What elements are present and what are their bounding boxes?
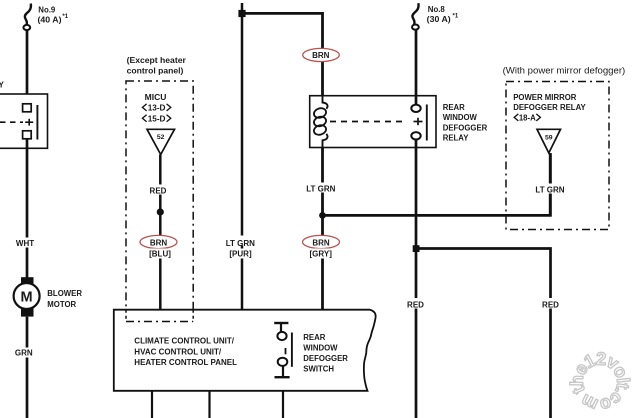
svg-text:DEFOGGER: DEFOGGER: [443, 123, 488, 132]
svg-text:RED: RED: [150, 186, 167, 195]
label WHT: [14, 238, 36, 249]
label RED (micu wire): [147, 185, 170, 196]
svg-text:Y: Y: [0, 80, 5, 89]
label REAR WINDOW DEFOGGER SWITCH: [303, 333, 348, 374]
MICU box bottom (inside climate box): [126, 310, 193, 322]
power mirror defogger relay block (dash-dot box): [506, 82, 609, 230]
terminals: [411, 105, 420, 112]
wire: fuse No.9 to blower motor relay: [26, 30, 29, 104]
svg-text:CLIMATE CONTROL UNIT/: CLIMATE CONTROL UNIT/: [134, 337, 234, 346]
label MICU <13-D> <15-D>: [142, 92, 170, 124]
label LT GRN (power mirror): [533, 184, 567, 195]
dashed actuation line: [330, 121, 406, 123]
blower motor M: [14, 277, 40, 316]
coil: [323, 96, 328, 109]
label RED (right): [539, 298, 562, 310]
wire: RED branch right and down: [416, 249, 551, 418]
wire: top branch over to relay coil: [242, 13, 323, 96]
node: top junction: [238, 10, 245, 17]
svg-text:15-D: 15-D: [148, 114, 166, 123]
svg-text:No.9: No.9: [38, 4, 55, 14]
rear window defogger relay: [310, 96, 436, 148]
label (Except heater control panel): [127, 55, 187, 76]
label BLOWER MOTOR: [47, 289, 82, 309]
label POWER MIRROR DEFOGGER RELAY <18-A>: [513, 93, 586, 123]
label BRN (circled, top): [303, 48, 340, 61]
svg-text:LT GRN: LT GRN: [535, 185, 564, 194]
svg-text:BRN: BRN: [312, 51, 330, 60]
contact bar: [426, 105, 428, 141]
svg-text:(With power mirror defogger): (With power mirror defogger): [503, 65, 626, 76]
svg-text:[GRY]: [GRY]: [310, 249, 333, 258]
svg-text:M: M: [21, 289, 33, 305]
svg-text:No.8: No.8: [428, 4, 445, 14]
svg-text:MOTOR: MOTOR: [47, 300, 76, 309]
watermark the12volt.com: [567, 349, 633, 416]
svg-text:*1: *1: [62, 14, 68, 20]
wire GRN: blower motor to bottom: [26, 317, 29, 418]
node: splice on micu wire: [157, 208, 164, 215]
svg-text:HEATER CONTROL PANEL: HEATER CONTROL PANEL: [134, 358, 237, 367]
wires below climate box: [151, 391, 153, 418]
svg-text:LT GRN: LT GRN: [226, 239, 255, 248]
node: junction at (416,248.5): [413, 245, 420, 252]
svg-text:RED: RED: [407, 301, 424, 310]
svg-text:BLOWER: BLOWER: [47, 289, 82, 298]
label BRN [GRY] (circled): [303, 235, 340, 258]
svg-text:59: 59: [545, 135, 553, 142]
wire BRN [GRY]: junction into climate box: [321, 215, 324, 310]
svg-text:18-A: 18-A: [519, 114, 536, 123]
rear window defogger switch: [274, 323, 292, 377]
svg-text:*1: *1: [453, 14, 459, 20]
wire LT GRN [PUR] label (on x=242 wire): [223, 236, 257, 259]
svg-text:BRN: BRN: [312, 239, 330, 248]
svg-text:GRN: GRN: [15, 349, 33, 358]
wire: triangle 59 down to corner: [549, 153, 552, 216]
svg-text:POWER MIRROR: POWER MIRROR: [513, 93, 577, 102]
svg-text:(40 A): (40 A): [38, 14, 62, 24]
svg-text:RELAY: RELAY: [443, 134, 470, 143]
wire WHT: relay to blower motor: [26, 139, 29, 279]
label GRN: [13, 348, 35, 358]
svg-text:REAR: REAR: [443, 103, 465, 112]
svg-text:BRN: BRN: [150, 239, 168, 248]
svg-text:[PUR]: [PUR]: [229, 249, 252, 258]
svg-text:REAR: REAR: [303, 333, 325, 342]
MICU connector block (dash-dot box): [126, 81, 193, 322]
svg-text:(Except heater: (Except heater: [127, 55, 187, 65]
svg-text:[BLU]: [BLU]: [149, 249, 171, 258]
wire RED (left): relay to bottom: [415, 140, 418, 418]
node: junction at (322,215.4): [319, 212, 326, 219]
svg-text:LT GRN: LT GRN: [306, 184, 335, 193]
connector triangle 59: [537, 129, 561, 153]
svg-text:WHT: WHT: [16, 239, 34, 248]
contact cross: [414, 121, 423, 123]
label No.9 (40 A) *1: [38, 4, 69, 24]
svg-text:HVAC CONTROL UNIT/: HVAC CONTROL UNIT/: [134, 347, 222, 356]
svg-text:RED: RED: [542, 301, 559, 310]
label REAR WINDOW DEFOGGER RELAY: [443, 103, 488, 143]
fuse No.9: [23, 4, 31, 30]
wire: horizontal LT GRN to power mirror relay: [323, 154, 551, 215]
label BRN [BLU] (circled): [140, 235, 177, 258]
label RED (left): [404, 298, 427, 310]
blower motor relay (partially shown): [0, 94, 48, 148]
climate control unit box: [114, 310, 376, 391]
svg-text:DEFOGGER: DEFOGGER: [303, 354, 348, 363]
svg-text:(30 A): (30 A): [427, 14, 451, 24]
wire: top vertical at x=242 down to climate box: [241, 3, 244, 310]
svg-text:control panel): control panel): [127, 66, 184, 76]
svg-text:DEFOGGER RELAY: DEFOGGER RELAY: [513, 103, 586, 112]
connector triangle 52: [147, 129, 175, 154]
svg-text:MICU: MICU: [145, 92, 167, 102]
fuse No.8: [412, 3, 419, 30]
wire: MICU triangle to climate box: [159, 155, 162, 311]
label No.8 (30 A) *1: [427, 4, 459, 24]
wire LT GRN: coil bottom to junction: [321, 148, 324, 217]
wire: fuse No.8 to relay terminal: [415, 30, 418, 105]
svg-text:WINDOW: WINDOW: [443, 113, 478, 122]
svg-text:WINDOW: WINDOW: [303, 343, 338, 352]
label CLIMATE CONTROL UNIT / HVAC / HEATER: [134, 337, 237, 367]
svg-text:52: 52: [157, 134, 165, 141]
svg-text:SWITCH: SWITCH: [303, 364, 334, 373]
label LT GRN (x=322): [304, 183, 338, 194]
svg-text:13-D: 13-D: [148, 104, 166, 113]
